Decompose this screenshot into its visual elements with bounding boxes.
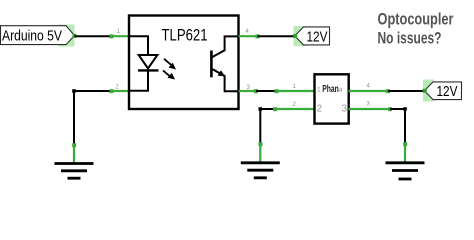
wire: U1 pin3 to Phan pin1 <box>256 90 277 92</box>
LED emission arrow 2 <box>163 70 175 79</box>
ground (middle) <box>241 142 280 178</box>
svg-text:1: 1 <box>293 84 297 90</box>
wire: Arduino 5V to U1 pin1 <box>75 35 113 37</box>
component Phan body <box>315 74 349 123</box>
svg-text:Phan: Phan <box>322 83 339 95</box>
svg-text:4: 4 <box>367 84 371 90</box>
LED D inside U1: triangle <box>139 55 158 69</box>
wire: Phan pin4 to 12V label (bottom right) <box>388 90 425 92</box>
emitter arrowhead <box>218 70 226 76</box>
wire bend dot <box>72 89 76 93</box>
ground (left) <box>55 143 94 178</box>
svg-text:3: 3 <box>342 104 348 115</box>
svg-text:TLP621: TLP621 <box>162 27 208 45</box>
wire: Phan pin2 to middle ground <box>260 109 276 144</box>
svg-text:1: 1 <box>317 87 321 94</box>
svg-text:12V: 12V <box>437 83 458 100</box>
op-amp U1 optocoupler TLP621 body <box>129 16 239 110</box>
wire: left vertical to ground <box>73 91 75 145</box>
net label Arduino 5V <box>1 25 77 47</box>
wire: U1 pin4 to 12V label <box>258 35 296 37</box>
svg-text:4: 4 <box>246 29 250 35</box>
LED emission arrow 1 <box>164 59 176 70</box>
svg-text:Optocoupler: Optocoupler <box>378 10 454 29</box>
Phan pin2 lead <box>273 107 315 111</box>
svg-text:No issues?: No issues? <box>378 28 442 47</box>
svg-text:12V: 12V <box>307 28 328 45</box>
net label 12V (bottom right) <box>423 80 462 102</box>
svg-text:3: 3 <box>367 102 371 108</box>
wire bend dot <box>403 107 407 111</box>
LED D inside U1: anode feed <box>129 36 148 54</box>
svg-text:2: 2 <box>293 102 297 108</box>
U1 pin4 lead <box>239 34 260 38</box>
Phan pin4 lead <box>349 89 391 93</box>
ground (right) <box>386 142 425 179</box>
LED D inside U1: cathode feed <box>129 70 148 90</box>
svg-text:4: 4 <box>339 87 343 94</box>
LED D inside U1: cathode bar <box>138 69 159 71</box>
Phan pin3 lead <box>349 107 393 111</box>
Phan pin1 lead <box>275 89 315 93</box>
wire: Phan pin3 to right ground <box>390 109 405 144</box>
phototransistor emitter path <box>212 69 239 92</box>
wire: U1 pin2 to left ground, horizontal <box>74 90 112 92</box>
U1 pin3 lead <box>239 89 259 93</box>
U1 pin2 lead <box>110 89 130 93</box>
phototransistor collector path <box>212 36 239 57</box>
svg-text:2: 2 <box>116 85 120 91</box>
svg-text:Arduino 5V: Arduino 5V <box>2 28 62 45</box>
U1 pin1 lead <box>110 34 130 38</box>
svg-text:2: 2 <box>317 104 323 115</box>
wire bend dot <box>259 107 263 111</box>
net label 12V (top) <box>293 26 329 46</box>
phototransistor Q inside U1: base bar <box>210 51 213 78</box>
svg-text:1: 1 <box>117 29 121 35</box>
